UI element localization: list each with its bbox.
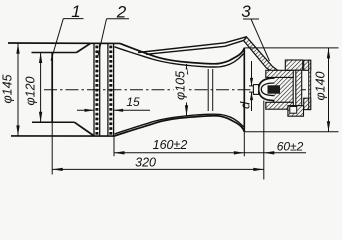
dim phi140 ext top <box>244 47 338 49</box>
orifice edge bottom <box>249 91 254 93</box>
arrow 15 left <box>85 109 95 112</box>
bell outer top contour <box>120 43 244 63</box>
arrow 60 right outside <box>264 151 275 154</box>
leader 2 <box>98 19 107 56</box>
dim 60 line <box>244 152 306 154</box>
leader 3 <box>251 19 270 61</box>
fitting bottom flange bar <box>266 102 294 109</box>
arrow 320 right <box>253 168 263 171</box>
halo phi105 <box>174 70 188 103</box>
arrow phi145 bottom <box>16 125 19 135</box>
bell outer bottom contour <box>114 116 244 136</box>
fitting nub <box>253 85 258 95</box>
svg-text:60±2: 60±2 <box>277 139 304 153</box>
leader 1 <box>51 19 63 61</box>
arrow d bottom <box>250 92 253 100</box>
dim phi140 line <box>328 48 330 132</box>
svg-text:3: 3 <box>241 2 251 21</box>
band ring 2a left edge <box>93 43 95 136</box>
dim phi145 line <box>17 43 19 136</box>
fitting top block <box>285 60 302 70</box>
arrow phi140 bottom <box>327 121 330 132</box>
fitting body section <box>273 77 293 102</box>
centerline axis <box>44 89 306 91</box>
leader 1 shelf <box>63 18 83 20</box>
fitting dome inner <box>261 83 274 96</box>
dim d lower shaft <box>251 92 253 111</box>
bell inner bottom contour <box>115 114 244 134</box>
svg-text:2: 2 <box>116 2 127 21</box>
arrow phi145 top <box>16 43 19 54</box>
extension of tip face down to 160 dim <box>243 132 245 157</box>
svg-text:d: d <box>238 101 253 109</box>
fitting bottom block <box>288 106 304 117</box>
arrow 160 left <box>114 151 125 154</box>
dim 160 line <box>114 152 244 154</box>
band dots b <box>109 46 112 135</box>
band ring 2b left edge <box>107 43 109 136</box>
dim phi140 ext bottom <box>244 131 338 133</box>
cylinder bottom edge with phi120 extension <box>32 121 75 123</box>
dim 15 left shaft <box>77 109 94 111</box>
fitting claw web <box>309 60 311 109</box>
leader 2 shelf <box>107 18 130 20</box>
arrowheads <box>16 43 330 171</box>
svg-text:160±2: 160±2 <box>153 138 188 152</box>
ext 160 left <box>113 136 115 156</box>
ext 60 right <box>263 101 265 180</box>
arrow 15 right <box>114 109 124 112</box>
dim d upper shaft <box>251 61 253 86</box>
dim phi105 line <box>186 64 188 116</box>
svg-text:320: 320 <box>135 155 156 169</box>
orifice edge top <box>249 85 254 87</box>
dim 320 line <box>52 168 264 170</box>
cylinder top edge with phi120 extension <box>32 52 77 54</box>
band ring 2a right edge <box>99 43 101 136</box>
fitting top flange bar <box>266 70 294 77</box>
pipe arm upper line <box>138 37 278 71</box>
cone top edge <box>77 43 91 52</box>
svg-text:15: 15 <box>126 95 140 109</box>
arrow d top <box>250 78 253 86</box>
arrow phi140 top <box>327 48 330 59</box>
seam mark lines <box>207 69 209 111</box>
shell bottom line and phi145 bottom extension <box>11 135 114 137</box>
dim 15 right shaft <box>114 109 150 111</box>
svg-text:φ120: φ120 <box>24 76 38 105</box>
fitting dome outer <box>259 78 275 101</box>
arrow phi105 top <box>185 64 188 75</box>
fitting claw top <box>304 60 311 70</box>
pipe arm lower line <box>146 40 271 70</box>
pipe elbow hatched wall <box>244 37 278 71</box>
fitting claw bottom <box>304 98 311 109</box>
cone bottom edge <box>75 122 95 136</box>
svg-text:φ105: φ105 <box>173 71 187 100</box>
cylinder left face <box>51 52 53 123</box>
band dots a <box>95 46 98 135</box>
svg-text:φ140: φ140 <box>313 71 327 100</box>
extension line for 320 left <box>51 123 53 175</box>
band ring 2b right edge <box>113 43 115 136</box>
bell inner top contour <box>115 47 244 67</box>
leader 3 shelf <box>243 18 259 20</box>
nozzle tip face <box>243 48 245 132</box>
fitting right web <box>296 70 302 109</box>
fitting bottom block notch <box>290 107 297 114</box>
arrow phi105 bottom <box>185 105 188 116</box>
arrow 320 left <box>52 168 63 171</box>
fitting plug <box>268 85 281 93</box>
arrow 160 right <box>234 151 245 154</box>
arrow phi120 bottom <box>39 112 42 123</box>
dim phi120 line <box>40 53 42 123</box>
shell top line and phi145 top extension <box>8 42 120 44</box>
svg-text:1: 1 <box>71 2 80 21</box>
svg-text:φ145: φ145 <box>1 74 15 103</box>
arrow phi120 top <box>39 53 42 64</box>
